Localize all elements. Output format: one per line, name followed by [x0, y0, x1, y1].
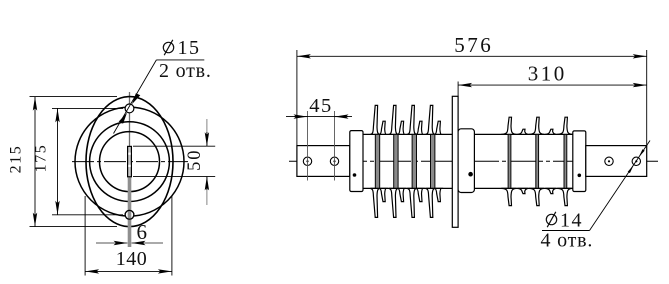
bolt hole bottom redraw over band [125, 210, 134, 219]
sheath line bottom, right section [474, 187, 573, 189]
svg-text:215: 215 [8, 145, 25, 174]
svg-text:45: 45 [309, 95, 333, 117]
dimension 45 arrows [294, 116, 308, 118]
left tongue hole 1 [303, 157, 311, 165]
bolt hole top Ø15 [125, 104, 134, 113]
dimension 310 [458, 84, 647, 86]
callout Ø15 shelf [156, 59, 204, 61]
hole centerline 2 [334, 111, 336, 181]
dimension 310 extension line [457, 82, 459, 97]
svg-text:6: 6 [137, 220, 148, 244]
left small shed 4 [435, 121, 442, 201]
sheath circle [100, 132, 160, 192]
right tongue terminal [586, 146, 647, 177]
left collar bolt dot [353, 173, 357, 177]
right small shed 1 [517, 129, 528, 193]
centerline vertical, left view [129, 92, 131, 247]
right tongue hole 2 [632, 157, 640, 165]
left tongue hole center dots [306, 160, 308, 162]
dimension 140 [85, 270, 172, 272]
right small shed 2 [545, 129, 556, 193]
left tongue terminal [297, 146, 350, 177]
boss bolt dot [468, 172, 473, 177]
bolt hole bottom Ø15 [125, 210, 134, 219]
tongue slot 6x50 [128, 146, 132, 176]
callout Ø15 arrowheads [132, 93, 140, 104]
svg-text:175: 175 [33, 144, 50, 173]
left small shed 1 [380, 121, 387, 201]
dimension 576 [297, 55, 647, 57]
svg-text:14: 14 [560, 210, 583, 232]
sheath line top, right section [474, 133, 573, 135]
callout Ø15 text [163, 37, 200, 59]
left big shed 3 [407, 105, 416, 217]
dimension 215 extension lines [30, 97, 118, 227]
right tongue hole 1 [605, 157, 613, 165]
svg-text:50: 50 [185, 149, 205, 171]
main axis centerline [289, 160, 658, 162]
dimension 50 arrows [206, 132, 208, 146]
callout Ø14 shelf [542, 230, 590, 232]
right big shed 3 [557, 117, 572, 205]
right collar [573, 131, 586, 192]
right big shed 2 [529, 117, 544, 205]
dimension 175 extension lines [52, 108, 123, 214]
dimension 215 [34, 97, 36, 227]
boss right of flange [458, 129, 474, 193]
callout Ø15 2 holes : leader [114, 60, 157, 134]
svg-text:2 отв.: 2 отв. [159, 60, 212, 82]
callout Ø14 text [546, 210, 583, 232]
svg-text:4 отв.: 4 отв. [541, 230, 594, 252]
callout Ø14 arrowheads [628, 165, 634, 173]
oval flange outline ellipse 140x215 [86, 97, 173, 227]
dimension 175 [57, 108, 59, 214]
dimension 6 extension band below slot [128, 177, 132, 247]
dimension 45 lines [286, 116, 352, 118]
left tongue hole 2 [330, 157, 338, 165]
left small shed 3 [416, 121, 423, 201]
left big shed 1 [370, 105, 379, 217]
right tongue hole center dots [608, 160, 610, 162]
right collar bolt dot [578, 174, 582, 178]
middle oval flange edge-on [452, 96, 458, 227]
left big shed circle [75, 107, 184, 216]
dimension 50 extension lines [133, 146, 215, 176]
left collar [350, 131, 363, 192]
dimension 6 arrows [96, 242, 128, 244]
svg-text:140: 140 [116, 248, 148, 270]
left big shed 2 [389, 105, 398, 217]
svg-text:576: 576 [454, 33, 493, 57]
left small shed 2 [398, 121, 405, 201]
left big shed 4 [426, 105, 435, 217]
dimension 576 extension lines [297, 50, 647, 145]
hole centerline 1 [307, 111, 309, 181]
sheath line bottom, left section [363, 187, 452, 189]
dimension 140 extension lines [85, 196, 172, 276]
svg-text:310: 310 [528, 62, 567, 86]
centerline horizontal, left view [72, 161, 188, 163]
callout Ø14 4 holes : leader [590, 141, 651, 231]
right big shed 1 [501, 117, 516, 205]
dimension 50 line [206, 119, 208, 205]
small shed circle [90, 122, 170, 202]
svg-text:15: 15 [178, 37, 201, 59]
sheath line top, left section [363, 133, 452, 135]
